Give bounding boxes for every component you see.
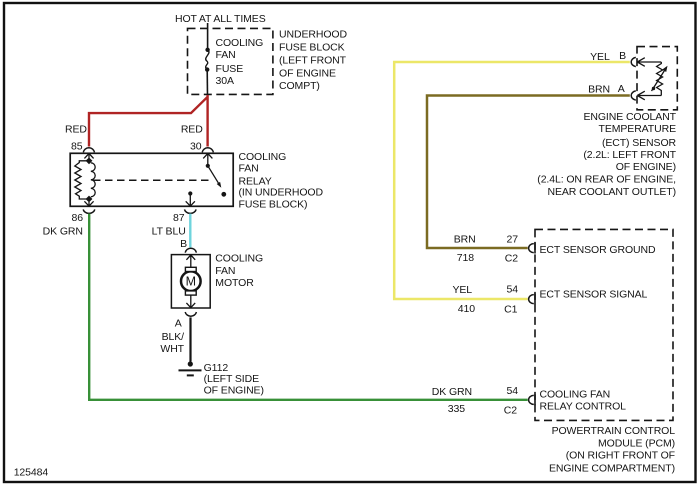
svg-text:FAN: FAN [216, 49, 236, 61]
ECT sensor pin B connector arc [631, 57, 636, 66]
fuse F: COOLING FAN FUSE 30A [205, 28, 210, 95]
svg-text:125484: 125484 [14, 466, 49, 478]
ECT sensor pin A connector arc [631, 91, 636, 100]
relay switch pivot dot [206, 164, 210, 168]
svg-text:A: A [175, 318, 182, 330]
svg-text:410: 410 [458, 303, 475, 315]
svg-text:G112: G112 [204, 362, 229, 374]
svg-text:DK GRN: DK GRN [43, 226, 83, 238]
svg-text:HOT AT ALL TIMES: HOT AT ALL TIMES [175, 13, 266, 25]
relay coil bottom junction [86, 196, 93, 203]
svg-text:C2: C2 [504, 404, 517, 416]
pin 87 connector arc [185, 209, 197, 213]
svg-text:RED: RED [181, 124, 203, 136]
PCM pin 54 (C1) connector arc [529, 295, 534, 304]
svg-text:FUSE BLOCK): FUSE BLOCK) [239, 199, 308, 211]
svg-text:(IN UNDERHOOD: (IN UNDERHOOD [239, 187, 324, 199]
svg-text:30: 30 [190, 141, 202, 153]
svg-text:COOLING: COOLING [215, 253, 263, 265]
ECT sensor pin B terminal arrow [637, 58, 661, 67]
motor pin B connector arc [185, 248, 196, 252]
svg-text:COOLING FAN: COOLING FAN [540, 388, 611, 400]
svg-text:M: M [186, 275, 196, 289]
wire RED from fuse to relay pins 85 and 30 [89, 95, 208, 147]
svg-text:ENGINE COMPARTMENT): ENGINE COMPARTMENT) [549, 462, 675, 474]
pin 86 connector arc [83, 209, 95, 213]
svg-text:WHT: WHT [160, 343, 184, 355]
wire tick from HOT label to fuse block [207, 23, 209, 29]
motor M1 symbol [181, 267, 201, 295]
svg-text:TEMPERATURE: TEMPERATURE [599, 123, 677, 135]
PCM dashed box [535, 229, 673, 420]
svg-text:BRN: BRN [588, 84, 610, 96]
svg-text:FUSE BLOCK: FUSE BLOCK [279, 42, 345, 54]
wire YEL sensor B to PCM [394, 62, 630, 299]
svg-text:UNDERHOOD: UNDERHOOD [279, 29, 347, 41]
svg-text:A: A [618, 83, 625, 95]
wire BLK/WHT motor to ground [189, 317, 191, 361]
pin 30 connector arc [202, 148, 213, 153]
pin 85 terminal arrow [84, 154, 93, 159]
svg-text:ENGINE COOLANT: ENGINE COOLANT [583, 111, 676, 123]
relay actuation dashed link [93, 179, 211, 181]
svg-text:54: 54 [507, 385, 519, 397]
blade end dot [221, 192, 226, 197]
svg-text:MOTOR: MOTOR [215, 277, 254, 289]
motor pin A connector arc [185, 312, 196, 316]
svg-text:B: B [619, 50, 626, 62]
ECT sensor dashed box [637, 47, 677, 110]
cooling fan relay box [70, 153, 233, 206]
cooling fan motor box [171, 255, 210, 308]
wire DK GRN pin86 to PCM [89, 214, 528, 400]
svg-text:NEAR COOLANT OUTLET): NEAR COOLANT OUTLET) [548, 186, 677, 198]
svg-text:OF ENGINE): OF ENGINE) [204, 385, 264, 397]
svg-text:BLK/: BLK/ [162, 331, 185, 343]
wire BRN sensor A to PCM [427, 96, 630, 249]
svg-text:MODULE (PCM): MODULE (PCM) [598, 438, 675, 450]
relay coil top junction [86, 157, 93, 164]
motor top terminal arrow [186, 255, 195, 268]
PCM pin 27 connector arc [529, 244, 534, 253]
svg-text:COMPT): COMPT) [279, 80, 320, 92]
ECT thermistor RT1 zigzag [657, 62, 663, 96]
motor bottom terminal arrow [186, 295, 195, 308]
svg-text:30A: 30A [216, 75, 234, 87]
svg-text:COOLING: COOLING [239, 151, 287, 163]
svg-text:(LEFT FRONT: (LEFT FRONT [279, 54, 347, 66]
svg-text:718: 718 [457, 252, 474, 264]
relay coil (zigzag + bumps) [75, 161, 95, 199]
pin 87 terminal arrow [186, 194, 195, 207]
pin 30 terminal arrow [203, 154, 212, 166]
svg-text:(ON RIGHT FRONT OF: (ON RIGHT FRONT OF [566, 450, 675, 462]
blade arrowhead [217, 182, 222, 188]
ground G112 [179, 361, 202, 375]
svg-text:(ECT) SENSOR: (ECT) SENSOR [602, 137, 677, 149]
svg-text:YEL: YEL [452, 284, 472, 296]
svg-text:C1: C1 [504, 303, 517, 315]
svg-text:85: 85 [71, 141, 83, 153]
svg-text:ECT SENSOR SIGNAL: ECT SENSOR SIGNAL [540, 288, 648, 300]
svg-text:OF ENGINE: OF ENGINE [279, 67, 336, 79]
svg-text:B: B [180, 238, 187, 250]
svg-text:RELAY CONTROL: RELAY CONTROL [540, 400, 627, 412]
svg-text:LT BLU: LT BLU [152, 226, 186, 238]
svg-text:OF ENGINE): OF ENGINE) [616, 161, 676, 173]
svg-text:(LEFT SIDE: (LEFT SIDE [204, 373, 259, 385]
ECT sensor pin A terminal arrow [637, 91, 661, 100]
relay switch blade [208, 166, 220, 186]
svg-text:DK GRN: DK GRN [432, 386, 472, 398]
underhood fuse block (dashed box) [188, 28, 273, 94]
svg-text:POWERTRAIN CONTROL: POWERTRAIN CONTROL [552, 425, 676, 437]
PCM pin 54 (C2) connector arc [529, 395, 534, 404]
svg-text:FAN: FAN [239, 163, 259, 175]
svg-text:54: 54 [507, 283, 519, 295]
ECT thermistor arrow [652, 66, 668, 91]
svg-text:C2: C2 [505, 252, 518, 264]
svg-text:ECT SENSOR GROUND: ECT SENSOR GROUND [540, 244, 656, 256]
pin 85 connector arc [83, 148, 94, 153]
wire LT BLU (cyan) pin87 to motor B [189, 214, 191, 248]
svg-text:(2.2L: LEFT FRONT: (2.2L: LEFT FRONT [583, 149, 676, 161]
svg-text:BRN: BRN [454, 233, 476, 245]
svg-text:335: 335 [448, 403, 465, 415]
svg-text:86: 86 [72, 212, 84, 224]
svg-text:FAN: FAN [215, 265, 235, 277]
svg-text:FUSE: FUSE [216, 63, 244, 75]
svg-text:(2.4L: ON REAR OF ENGINE,: (2.4L: ON REAR OF ENGINE, [537, 174, 676, 186]
svg-text:87: 87 [173, 212, 185, 224]
svg-text:COOLING: COOLING [216, 37, 264, 49]
pin 87 contact dot [188, 191, 192, 195]
svg-text:27: 27 [507, 233, 519, 245]
svg-text:RED: RED [65, 124, 87, 136]
pin 86 terminal arrow [84, 201, 93, 206]
